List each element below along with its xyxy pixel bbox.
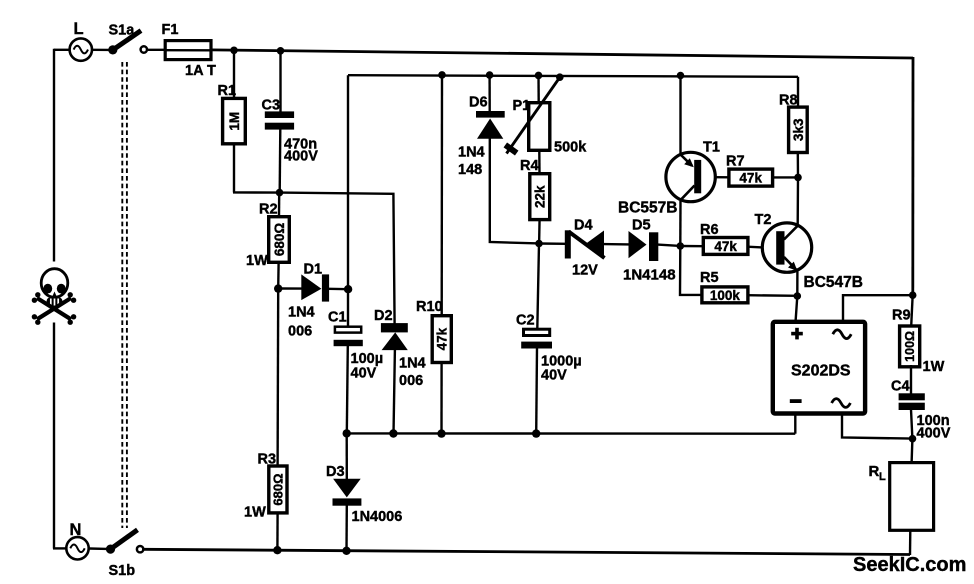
capacitor C4 — [891, 379, 951, 442]
wire R6 to T2 base — [747, 245, 763, 248]
svg-text:22k: 22k — [533, 185, 548, 208]
wire D5 to node — [658, 245, 681, 246]
wire left column lower — [53, 323, 55, 549]
resistor R3 — [244, 452, 287, 521]
svg-text:R9: R9 — [892, 308, 911, 324]
diode D5 — [623, 218, 676, 284]
capacitor C2 — [516, 313, 582, 384]
wire D2 bottom — [394, 350, 395, 435]
svg-text:1W: 1W — [244, 505, 266, 521]
wire N stub — [53, 547, 67, 549]
svg-text:006: 006 — [399, 373, 423, 389]
svg-text:1N4: 1N4 — [458, 145, 485, 161]
svg-text:1W: 1W — [923, 359, 945, 375]
svg-text:C1: C1 — [328, 310, 347, 326]
svg-text:D5: D5 — [632, 218, 651, 234]
transistor T1 BC557B — [618, 140, 720, 217]
AC source L — [70, 20, 92, 61]
wire mid bus — [347, 432, 796, 435]
wire D3 top — [346, 433, 348, 479]
switch S1a — [108, 23, 147, 55]
wire C1 column upper — [347, 75, 349, 327]
resistor R4 — [520, 158, 550, 220]
wire C4 bottom — [911, 410, 912, 464]
resistor R8 — [779, 93, 807, 153]
wire right dot to SSR ac1 — [843, 295, 913, 321]
svg-text:T1: T1 — [703, 140, 720, 156]
wire D4 to D5 — [603, 243, 630, 246]
wire RL bottom — [909, 530, 912, 556]
wire R3 bottom — [276, 512, 279, 551]
capacitor C3 — [262, 98, 319, 165]
svg-text:R8: R8 — [779, 93, 798, 109]
svg-text:1W: 1W — [246, 253, 268, 269]
potentiometer P1 — [505, 77, 587, 155]
svg-text:40V: 40V — [541, 368, 567, 384]
svg-text:BC547B: BC547B — [804, 274, 863, 291]
wire T1 collector top — [679, 76, 681, 155]
wire N to S1b — [89, 547, 107, 550]
wire L to S1a — [92, 49, 110, 52]
svg-text:47k: 47k — [435, 327, 450, 350]
wire mid row to D2 column — [279, 193, 394, 324]
wire R3 top — [276, 289, 279, 467]
wire R8 bottom to T2 — [797, 152, 800, 225]
wire R6 left — [680, 245, 703, 248]
skull and crossbones — [32, 269, 77, 325]
capacitor C1 — [328, 310, 383, 382]
load RL — [869, 463, 934, 531]
diode D1 — [278, 262, 348, 340]
wire S1a to fuse — [147, 49, 165, 51]
svg-text:T2: T2 — [755, 212, 772, 228]
svg-text:680Ω: 680Ω — [271, 473, 286, 505]
resistor R7 — [726, 154, 773, 187]
svg-text:R: R — [869, 463, 880, 480]
svg-text:R4: R4 — [520, 158, 539, 174]
svg-text:D6: D6 — [469, 95, 488, 111]
wire R5 right — [747, 294, 798, 297]
svg-text:006: 006 — [288, 324, 312, 340]
wire L stub left — [54, 49, 70, 51]
transistor T2 BC547B — [755, 212, 863, 291]
wire C3 bottom — [279, 129, 282, 193]
svg-text:S202DS: S202DS — [791, 363, 851, 380]
wire R7 right — [772, 176, 799, 178]
resistor R9 — [892, 308, 945, 376]
svg-text:L: L — [74, 20, 84, 38]
svg-text:D3: D3 — [326, 464, 345, 480]
wire R1 top — [233, 50, 235, 98]
resistor R5 — [700, 270, 748, 303]
svg-text:1A T: 1A T — [185, 63, 216, 79]
svg-text:1N4: 1N4 — [399, 356, 426, 372]
wire T1 collector bottom — [679, 201, 682, 246]
wire second bus — [348, 75, 798, 77]
svg-text:R2: R2 — [259, 202, 278, 218]
svg-text:1N4148: 1N4148 — [623, 267, 676, 284]
svg-text:S1b: S1b — [109, 563, 136, 579]
svg-text:C4: C4 — [891, 379, 910, 395]
resistor R2 — [246, 202, 289, 270]
svg-text:N: N — [70, 521, 82, 539]
diode D2 — [374, 308, 426, 389]
wire bottom bus — [143, 549, 910, 554]
wire R4 bottom — [538, 218, 541, 244]
resistor R10 — [416, 299, 451, 363]
svg-text:1M: 1M — [227, 112, 242, 131]
svg-text:F1: F1 — [162, 22, 179, 38]
wire D6 top — [488, 75, 491, 112]
svg-text:SeekIC.com: SeekIC.com — [853, 554, 966, 576]
wire right edge column — [911, 57, 914, 296]
wire R2 bottom — [277, 264, 280, 290]
resistor R1 — [218, 83, 246, 144]
svg-text:400V: 400V — [284, 149, 318, 165]
wire P1 top — [537, 75, 540, 102]
svg-text:3k3: 3k3 — [791, 118, 806, 141]
svg-text:47k: 47k — [714, 239, 737, 254]
wire R10 bottom — [440, 362, 443, 434]
svg-text:P1: P1 — [513, 98, 531, 114]
svg-text:L: L — [879, 471, 886, 483]
svg-text:R3: R3 — [258, 452, 277, 468]
svg-text:D2: D2 — [374, 308, 393, 324]
svg-text:100k: 100k — [710, 288, 741, 303]
diode D3 — [326, 464, 402, 525]
wire top bus — [211, 50, 913, 58]
diode D6 — [458, 95, 505, 179]
svg-text:C3: C3 — [262, 98, 281, 114]
wire P1 to R4 — [538, 150, 541, 175]
wire D6 bottom to D4 row — [490, 138, 539, 244]
svg-text:R6: R6 — [700, 222, 719, 238]
wire SSR ac2 bottom — [842, 414, 913, 439]
svg-text:680Ω: 680Ω — [272, 223, 287, 257]
zener diode D4 — [565, 218, 605, 279]
solid state relay S202DS — [773, 322, 865, 414]
wire D3 bottom — [345, 505, 348, 552]
wire node row to R2 — [278, 193, 281, 217]
svg-text:400V: 400V — [917, 426, 951, 442]
node dots — [230, 47, 916, 556]
svg-text:100Ω: 100Ω — [903, 331, 917, 362]
svg-text:BC557B: BC557B — [618, 200, 677, 217]
wire SSR minus to mid bus — [794, 414, 796, 434]
wire D4 left — [539, 242, 566, 245]
svg-text:12V: 12V — [572, 263, 598, 279]
wire R5 branch — [680, 246, 703, 295]
svg-text:1N4: 1N4 — [288, 305, 315, 321]
resistor R6 — [700, 222, 748, 254]
svg-text:148: 148 — [458, 162, 482, 178]
fuse F1 1A T — [162, 22, 217, 79]
wire R9 to C4 — [910, 365, 912, 394]
svg-text:500k: 500k — [554, 140, 587, 156]
svg-text:40V: 40V — [351, 366, 377, 382]
wire R8 top — [797, 77, 799, 107]
svg-text:R10: R10 — [416, 299, 443, 315]
wire R1 bottom — [233, 145, 280, 193]
svg-text:C2: C2 — [516, 313, 535, 329]
wire left column upper — [53, 49, 55, 262]
wire C2 bottom — [535, 348, 538, 435]
wire R10 top — [441, 75, 444, 316]
svg-text:D1: D1 — [304, 262, 323, 278]
wire T1 base to R7 — [715, 176, 729, 179]
wire C1 bottom — [347, 346, 348, 434]
wire T2 emitter — [796, 272, 798, 322]
AC source N — [66, 521, 88, 560]
svg-text:R7: R7 — [726, 154, 745, 170]
wire C3 top — [279, 51, 281, 113]
svg-text:1N4006: 1N4006 — [352, 509, 403, 525]
svg-text:S1a: S1a — [109, 23, 136, 39]
wire R9 top — [911, 295, 913, 327]
wire C2 top — [537, 244, 539, 330]
switch link dashed lines — [121, 62, 123, 528]
switch S1b — [106, 530, 143, 579]
svg-text:47k: 47k — [739, 170, 762, 185]
svg-text:R5: R5 — [700, 270, 719, 286]
svg-text:R1: R1 — [218, 83, 237, 99]
svg-text:D4: D4 — [574, 218, 593, 234]
